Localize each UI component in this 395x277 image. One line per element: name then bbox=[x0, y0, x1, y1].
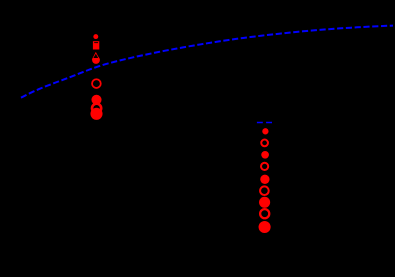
right column: filled circle 3 bbox=[261, 151, 269, 159]
left column: filled circle bbox=[91, 95, 101, 105]
left column: triangle hollow (black interior) bbox=[93, 54, 98, 58]
left column: open circle bbox=[92, 79, 101, 88]
right column: filled circle 1 bbox=[262, 128, 268, 134]
left column: filled circle under triangle bbox=[92, 56, 100, 64]
right column: open circle 6 bbox=[260, 186, 269, 195]
theory curve (blue dashed) bbox=[21, 26, 393, 98]
left column: open circle overlapped bbox=[92, 104, 101, 113]
right column: filled circle 5 bbox=[260, 175, 269, 184]
right column: open circle 8 bbox=[260, 209, 269, 218]
right column: open circle 4 bbox=[261, 163, 268, 170]
short blue dashed segment above right column bbox=[257, 122, 272, 124]
right column: open circle 2 bbox=[261, 140, 268, 147]
left column: open triangle bbox=[92, 52, 100, 60]
left column: square marker bbox=[93, 41, 99, 49]
right column: filled circle 7 bbox=[259, 197, 270, 208]
left column: bottom filled circle bbox=[90, 108, 102, 120]
right column: filled circle 9 bbox=[259, 221, 271, 233]
left column: small filled circle bbox=[93, 34, 98, 39]
